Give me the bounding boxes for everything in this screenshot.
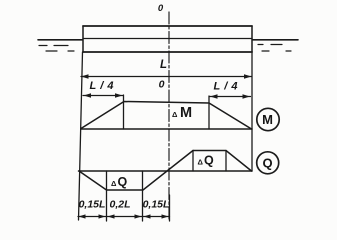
dimension L/4 right [210, 94, 251, 98]
svg-text:Q: Q [262, 156, 272, 171]
centerline axis [168, 12, 170, 220]
svg-text:0,2L: 0,2L [109, 199, 130, 211]
shear baseline [79, 170, 253, 172]
shear left ordinates [107, 171, 143, 221]
svg-text:L/4: L/4 [90, 80, 118, 92]
svg-text:0,15L: 0,15L [79, 199, 106, 211]
svg-text:Q: Q [118, 175, 128, 189]
dimension chain bottom [78, 214, 170, 218]
left boundary line [79, 52, 83, 220]
shear diagram left lobe [79, 151, 193, 191]
moment ordinate right [208, 96, 210, 129]
svg-text:0,15L: 0,15L [143, 199, 170, 211]
label delta-M [172, 105, 192, 121]
svg-text:L: L [160, 59, 167, 71]
moment ordinate left [123, 95, 125, 129]
svg-text:L/4: L/4 [214, 80, 242, 92]
water surface left [38, 40, 83, 51]
shear diagram right lobe [193, 151, 252, 172]
dimension L [81, 74, 252, 78]
moment diagram baseline [81, 128, 252, 130]
svg-text:Δ: Δ [111, 179, 117, 188]
svg-text:M: M [262, 112, 273, 127]
label delta-Q left [111, 175, 128, 189]
node Q circle [257, 152, 279, 174]
label delta-Q right [198, 154, 215, 168]
svg-text:Q: Q [204, 154, 214, 168]
water surface right [253, 40, 299, 51]
dimension L/4 left [83, 93, 123, 97]
moment diagram outline [81, 102, 252, 130]
svg-text:M: M [180, 105, 192, 121]
svg-text:0: 0 [158, 3, 164, 14]
svg-text:0: 0 [159, 79, 165, 91]
beam waterline [83, 38, 252, 40]
bottom tick centerline [169, 195, 171, 221]
shear right ordinates [193, 151, 226, 172]
svg-text:Δ: Δ [198, 158, 204, 167]
node M circle [257, 108, 279, 130]
right boundary line [251, 52, 253, 171]
beam outline [83, 26, 252, 52]
svg-text:Δ: Δ [172, 110, 178, 119]
